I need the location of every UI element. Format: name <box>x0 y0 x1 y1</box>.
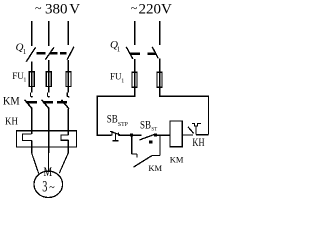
wire L1 top <box>31 21 33 46</box>
svg-text:KM: KM <box>170 154 184 164</box>
aux contact KM left post tick <box>136 154 138 158</box>
wire aux branch right vertical <box>159 135 161 155</box>
wire SBst-to-coil <box>155 134 170 136</box>
svg-text:SB: SB <box>107 114 118 126</box>
thermal relay KH heater element 1 <box>23 134 32 141</box>
thermal contact KH blade <box>188 127 194 134</box>
wire L2 KM-to-KH <box>48 109 50 153</box>
switch Q1 control pole 2 blade <box>152 47 158 59</box>
svg-text:1: 1 <box>23 48 27 56</box>
contactor KM pole 2 fixed tick <box>48 92 50 96</box>
contactor KM pole 3 fixed tick <box>67 92 69 96</box>
svg-text:1: 1 <box>117 45 121 53</box>
switch Q1 pole 3 blade <box>67 47 74 60</box>
thermal contact KH actuator U <box>192 123 201 126</box>
contactor KM pole 1 blade <box>25 100 33 109</box>
fuse FU1c wire <box>67 72 69 93</box>
switch Q1 control linkage dashed line <box>131 52 157 54</box>
svg-text:KH: KH <box>192 137 205 150</box>
wire left rail <box>96 96 98 135</box>
wire L1 KM-to-KH <box>31 109 33 134</box>
fuse FU1d wire <box>134 72 136 97</box>
svg-text:~: ~ <box>49 183 55 194</box>
aux contact KM branch left vertical <box>131 135 133 154</box>
svg-text:380: 380 <box>45 2 68 18</box>
svg-text:KM: KM <box>3 95 20 108</box>
fuse FU1d body <box>132 72 137 87</box>
wire L3 Q-to-fuse <box>67 60 69 72</box>
stop button SBstp left post <box>111 131 113 136</box>
wire control L2 Q-to-fuse <box>159 58 161 72</box>
switch Q1 linkage dashed line <box>37 52 67 54</box>
contactor KM linkage dashed line <box>27 101 68 103</box>
thermal contact KH fixed line <box>195 126 197 135</box>
wire rail-to-SBstp <box>97 134 112 136</box>
wire L1 Q-to-fuse <box>31 62 33 72</box>
svg-text:KH: KH <box>5 116 18 128</box>
wire motor lead 1 <box>32 153 39 174</box>
fuse FU1a wire <box>31 72 33 93</box>
wire L3 KH-to-motor <box>67 140 69 153</box>
wire node-to-SBst <box>132 134 142 136</box>
coil KM body <box>170 121 182 147</box>
switch Q1 pole 2 blade <box>45 47 54 59</box>
wire motor lead 3 <box>59 153 68 173</box>
wire SBstp-to-SBst <box>119 134 132 136</box>
wire left bus <box>97 95 135 97</box>
aux contact KM branch left horizontal <box>132 153 137 155</box>
fuse FU1e body <box>157 72 162 87</box>
svg-text:3: 3 <box>42 177 47 195</box>
stop button SBstp blade <box>110 131 120 135</box>
wire L3 KM-to-KH <box>67 109 69 135</box>
wire L3 top <box>67 21 69 45</box>
svg-text:~: ~ <box>131 1 138 15</box>
svg-text:220V: 220V <box>139 2 173 18</box>
switch Q1 control pole 1 blade <box>126 47 133 59</box>
svg-text:STP: STP <box>118 122 128 128</box>
svg-text:1: 1 <box>121 79 124 85</box>
fuse FU1b wire <box>48 72 50 93</box>
wire control L2 top <box>159 21 161 45</box>
stop button SBstp right post <box>118 133 120 136</box>
node junction dot A <box>130 134 133 137</box>
svg-text:SB: SB <box>140 120 151 132</box>
thermal relay KH box <box>16 131 76 147</box>
wire KH-to-rail <box>196 134 208 136</box>
contactor KM pole 1 fixed tick <box>31 92 33 96</box>
fuse FU1c body <box>66 72 71 87</box>
stop button SBstp cap <box>113 140 119 142</box>
contactor KM pole 2 blade <box>42 100 50 109</box>
svg-text:ST: ST <box>151 128 157 133</box>
fuse FU1b body <box>46 72 51 87</box>
thermal relay KH heater element 3 <box>61 135 69 140</box>
start button SBst blade <box>140 135 155 140</box>
aux contact KM right horizontal <box>152 155 160 157</box>
aux contact KM blade <box>134 156 152 168</box>
wire control L1 Q-to-fuse <box>134 59 136 72</box>
wire control L1 top <box>134 21 136 45</box>
node junction dot B <box>154 133 157 136</box>
wire motor lead 2 <box>48 153 50 171</box>
start button SBst cap <box>149 140 152 143</box>
wire right bus <box>160 95 209 97</box>
motor M circle <box>34 171 63 197</box>
fuse FU1a body <box>29 72 34 87</box>
wire coil-to-KH <box>182 134 193 136</box>
svg-text:1: 1 <box>23 78 26 84</box>
stop button SBstp stem <box>114 134 116 141</box>
svg-text:V: V <box>69 2 80 18</box>
wire right rail <box>207 96 209 135</box>
svg-text:KM: KM <box>148 163 162 173</box>
contactor KM pole 3 blade <box>61 100 69 109</box>
wire L2 Q-to-fuse <box>48 60 50 72</box>
wire L1 KH-to-motor <box>31 140 33 152</box>
svg-text:~: ~ <box>35 1 42 15</box>
switch Q1 pole 1 blade <box>26 47 35 61</box>
wire L2 top <box>48 21 50 46</box>
fuse FU1e wire <box>159 72 161 97</box>
